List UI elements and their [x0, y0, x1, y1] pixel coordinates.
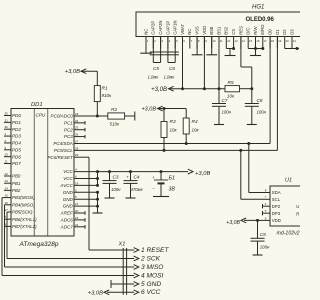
svg-text:PD5: PD5 [12, 147, 21, 152]
svg-text:10к: 10к [192, 128, 200, 133]
svg-text:DD1: DD1 [31, 102, 43, 108]
svg-text:R: R [296, 211, 299, 216]
svg-text:+3,0В: +3,0В [195, 171, 210, 177]
svg-text:VSS: VSS [195, 26, 200, 35]
svg-text:+: + [126, 174, 129, 179]
svg-text:U: U [296, 204, 299, 209]
svg-text:VBAT: VBAT [180, 24, 185, 35]
svg-text:CAP1P: CAP1P [165, 21, 170, 35]
svg-text:CAP1N: CAP1N [173, 20, 178, 34]
svg-text:VDD: VDD [202, 26, 207, 35]
svg-text:GND: GND [63, 204, 74, 209]
svg-text:C6: C6 [169, 66, 175, 71]
svg-text:28: 28 [75, 146, 79, 150]
svg-text:PD6: PD6 [12, 154, 21, 159]
svg-text:NC: NC [143, 29, 148, 35]
svg-text:Б1: Б1 [169, 176, 176, 182]
svg-text:PC1: PC1 [64, 120, 73, 125]
svg-text:PD7: PD7 [12, 161, 21, 166]
svg-text:BS0: BS0 [209, 26, 214, 35]
svg-text:HG1: HG1 [252, 4, 264, 10]
svg-text:2 SCK: 2 SCK [140, 255, 161, 262]
svg-text:CPU: CPU [36, 112, 46, 117]
svg-text:PD4: PD4 [12, 141, 21, 146]
svg-text:PC3: PC3 [64, 134, 73, 139]
svg-text:R/W: R/W [253, 26, 258, 35]
svg-text:27: 27 [75, 139, 79, 143]
svg-text:VDD: VDD [272, 218, 281, 223]
svg-text:6 VCC: 6 VCC [141, 289, 161, 296]
svg-text:30: 30 [5, 112, 9, 116]
svg-text:15: 15 [5, 194, 9, 198]
svg-text:21: 21 [293, 39, 296, 43]
svg-text:21: 21 [75, 202, 79, 206]
svg-text:SDA: SDA [272, 190, 281, 195]
svg-text:+3,0В: +3,0В [65, 69, 80, 75]
svg-text:100н: 100н [222, 109, 232, 114]
svg-text:NC: NC [187, 29, 192, 35]
svg-text:PC2: PC2 [64, 127, 73, 132]
svg-text:17: 17 [5, 208, 9, 212]
svg-text:13: 13 [235, 39, 238, 43]
svg-text:19: 19 [75, 216, 79, 220]
svg-text:910к: 910к [102, 93, 113, 98]
svg-text:PB5(SCK): PB5(SCK) [12, 210, 33, 215]
svg-text:29: 29 [75, 153, 79, 157]
svg-text:D2: D2 [282, 29, 287, 35]
svg-text:100н: 100н [111, 187, 121, 192]
svg-text:VCC: VCC [63, 176, 73, 181]
svg-text:C8: C8 [257, 98, 263, 103]
svg-text:PB2: PB2 [12, 188, 21, 193]
svg-text:13: 13 [5, 179, 9, 183]
svg-text:C4: C4 [134, 174, 140, 179]
svg-text:D3: D3 [289, 29, 294, 35]
svg-text:100н: 100н [260, 244, 270, 249]
svg-text:C5: C5 [153, 66, 159, 71]
svg-text:10: 10 [213, 39, 216, 43]
svg-text:11: 11 [220, 39, 223, 43]
svg-text:U1: U1 [285, 178, 292, 184]
svg-text:BS2: BS2 [224, 26, 229, 35]
svg-text:C3: C3 [113, 174, 119, 179]
svg-text:16: 16 [256, 39, 259, 43]
svg-text:E/RD: E/RD [260, 25, 265, 35]
svg-text:100н: 100н [257, 109, 267, 114]
svg-text:C9: C9 [260, 232, 266, 237]
svg-text:ADC7: ADC7 [60, 224, 74, 229]
svg-text:16: 16 [5, 201, 9, 205]
svg-text:R2: R2 [111, 107, 117, 113]
svg-text:PB0: PB0 [12, 174, 21, 179]
svg-text:DP3: DP3 [272, 211, 281, 216]
svg-text:32: 32 [5, 125, 9, 129]
svg-text:1,0мк: 1,0мк [148, 74, 160, 79]
svg-text:D/C: D/C [246, 27, 251, 34]
svg-text:20: 20 [286, 39, 289, 43]
svg-text:PC6/RESET: PC6/RESET [48, 155, 74, 160]
svg-text:PB1: PB1 [12, 181, 21, 186]
svg-text:PD3: PD3 [12, 134, 21, 139]
svg-text:md-102v2: md-102v2 [277, 231, 300, 237]
svg-text:PD0: PD0 [12, 113, 21, 118]
svg-text:GND: GND [63, 190, 74, 195]
svg-text:CS: CS [231, 29, 236, 35]
svg-text:R4: R4 [192, 119, 198, 125]
svg-text:PD2: PD2 [12, 127, 21, 132]
svg-text:26: 26 [75, 133, 79, 137]
svg-text:23: 23 [75, 112, 79, 116]
svg-text:AVCC: AVCC [59, 183, 73, 188]
svg-text:5 GND: 5 GND [141, 281, 161, 288]
svg-text:PB7(XTAL2): PB7(XTAL2) [12, 224, 37, 229]
svg-text:DP2: DP2 [272, 204, 281, 209]
svg-text:3В: 3В [169, 186, 176, 192]
svg-text:19: 19 [278, 39, 281, 43]
svg-text:PC0/ADC0: PC0/ADC0 [51, 114, 74, 119]
svg-text:1,0мк: 1,0мк [164, 74, 176, 79]
svg-text:PB6(XTAL1): PB6(XTAL1) [12, 217, 37, 222]
svg-text:+: + [152, 175, 155, 180]
svg-text:470мк: 470мк [131, 187, 144, 192]
svg-text:C7: C7 [222, 98, 228, 103]
svg-text:RES: RES [238, 26, 243, 35]
svg-text:D0: D0 [268, 29, 273, 35]
svg-text:12: 12 [227, 39, 230, 43]
svg-text:24: 24 [75, 119, 79, 123]
svg-text:R3: R3 [170, 119, 176, 125]
svg-text:+3,0В: +3,0В [226, 220, 240, 226]
svg-text:VCC: VCC [63, 169, 73, 174]
svg-text:17: 17 [264, 39, 267, 43]
svg-text:OLED0.96: OLED0.96 [246, 17, 275, 23]
svg-text:GND: GND [63, 197, 74, 202]
svg-text:14: 14 [5, 186, 9, 190]
svg-text:ATmega328p: ATmega328p [19, 241, 59, 248]
svg-text:20: 20 [75, 209, 79, 213]
svg-text:12: 12 [5, 172, 9, 176]
svg-text:X1: X1 [118, 242, 126, 248]
svg-text:−: − [152, 185, 155, 190]
svg-text:22: 22 [75, 223, 79, 227]
svg-text:31: 31 [5, 118, 9, 122]
svg-text:SCL: SCL [272, 197, 281, 202]
svg-text:D1: D1 [275, 29, 280, 35]
svg-text:10к: 10к [170, 128, 178, 133]
svg-text:R1: R1 [102, 85, 108, 91]
svg-text:25: 25 [75, 126, 79, 130]
svg-text:PD1: PD1 [12, 120, 21, 125]
svg-text:ADC6: ADC6 [60, 218, 74, 223]
svg-text:R5: R5 [228, 80, 234, 86]
svg-text:BS1: BS1 [216, 26, 221, 35]
svg-text:510к: 510к [110, 122, 121, 127]
svg-text:+3,0В: +3,0В [141, 107, 156, 113]
svg-text:11: 11 [5, 160, 8, 164]
svg-text:3 MISO: 3 MISO [141, 264, 163, 271]
svg-text:18: 18 [75, 181, 79, 185]
svg-text:+3,0В: +3,0В [88, 291, 103, 297]
svg-text:4 MOSI: 4 MOSI [141, 272, 164, 279]
svg-text:15: 15 [249, 39, 252, 43]
svg-text:10: 10 [5, 153, 9, 157]
svg-text:AREF: AREF [60, 211, 73, 216]
svg-text:PB3(MOSI): PB3(MOSI) [12, 195, 35, 200]
svg-text:10к: 10к [227, 93, 235, 98]
svg-text:PB4(MISO): PB4(MISO) [12, 202, 35, 207]
svg-text:PC4/SDA: PC4/SDA [53, 141, 72, 146]
svg-text:1 RESET: 1 RESET [141, 247, 169, 254]
svg-text:14: 14 [242, 39, 245, 43]
svg-text:+3,0В: +3,0В [151, 87, 167, 93]
svg-text:18: 18 [271, 39, 274, 43]
svg-text:CAP2N: CAP2N [158, 20, 163, 34]
svg-text:CAP2P: CAP2P [151, 21, 156, 35]
svg-text:PC5/SCL: PC5/SCL [54, 148, 73, 153]
